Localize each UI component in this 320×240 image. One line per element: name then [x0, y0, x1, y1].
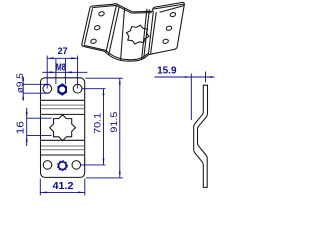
- right plate hole 3: [162, 39, 168, 45]
- hump inner line: [113, 5, 132, 13]
- right plate hole 1: [170, 12, 176, 18]
- svg-text:16: 16: [16, 121, 27, 135]
- dim 16 extension lines: [27, 117, 52, 119]
- dim dia9.5 vertical line + arrows: [22, 77, 24, 101]
- right plate left bend a: [148, 11, 153, 55]
- svg-text:15.9: 15.9: [157, 65, 177, 76]
- right plate left bend b: [151, 12, 157, 54]
- dim 16 vertical line + arrows: [26, 108, 28, 146]
- dim 41.2 extension lines: [39, 179, 41, 196]
- dim M8 line with inward arrows: [42, 71, 87, 73]
- dim 91.5 line: [119, 78, 121, 178]
- Z profile: [194, 85, 208, 187]
- dim 41.2 line: [41, 191, 85, 193]
- dim 91.5 extension lines: [85, 77, 123, 79]
- outer silhouette: [82, 2, 185, 61]
- bend line bottom 3 (gray): [41, 149, 84, 151]
- left plate hole 1: [98, 11, 104, 17]
- left plate hole 2: [94, 25, 100, 31]
- dim 70.1 extension lines: [82, 88, 105, 90]
- left plate bottom edge inner line: [84, 45, 106, 50]
- bend line bottom 1: [41, 139, 84, 141]
- right plate hole 2: [166, 25, 172, 31]
- SIDE VIEW: [155, 65, 215, 187]
- svg-text:M8: M8: [56, 62, 66, 73]
- bend line top 4: [41, 113, 84, 115]
- right plate top inner line: [160, 6, 185, 13]
- dim 15.9 line: [155, 76, 215, 78]
- bend line bottom 4: [41, 154, 84, 156]
- valley inner line: [132, 12, 151, 15]
- dim 70.1 line: [103, 89, 105, 165]
- bend line bottom 2 (gray): [41, 145, 84, 147]
- svg-text:70.1: 70.1: [92, 113, 103, 134]
- bend line top 1: [41, 99, 84, 101]
- hole top-left: [43, 84, 52, 93]
- left bend line b: [109, 7, 120, 56]
- 8-point star hole: [50, 115, 76, 141]
- left plate hole 3: [90, 39, 96, 45]
- svg-text:91.5: 91.5: [109, 112, 120, 133]
- bracket plate outline: [41, 78, 85, 178]
- DIMENSIONS front: [15, 46, 123, 195]
- 3D star hole: [124, 23, 152, 45]
- hole bottom-right: [72, 161, 81, 170]
- center face right edge a: [142, 9, 147, 60]
- M8 serrated nut top: hexagon: [58, 84, 66, 95]
- dim M8 extension lines: [55, 59, 57, 84]
- hole bottom-left: [43, 161, 52, 170]
- bend line top 3 (gray): [41, 108, 84, 110]
- dim 15.9 extension lines: [190, 74, 192, 121]
- left plate left edge inner line: [84, 8, 92, 44]
- hole top-right: [73, 84, 82, 93]
- dim dia9.5 extension lines: [23, 83, 49, 85]
- left bend line a: [106, 5, 117, 53]
- band bottom edge inner line: [106, 51, 148, 60]
- dim 27 extension lines: [46, 56, 48, 89]
- M8 serrated nut bottom: thread ring: [59, 162, 67, 170]
- 3D VIEW: [82, 2, 185, 61]
- center face right edge b: [144, 9, 150, 57]
- svg-text:27: 27: [58, 46, 68, 56]
- center face left edge: [121, 9, 125, 60]
- M8 top thread ring: [58, 86, 66, 94]
- bend line top 2 (gray): [41, 104, 84, 106]
- left plate top edge inner line: [92, 6, 114, 8]
- right plate top edge second line: [154, 4, 184, 9]
- FRONT VIEW: [41, 78, 85, 178]
- svg-text:41.2: 41.2: [53, 181, 74, 192]
- dim 27 line: [47, 57, 77, 59]
